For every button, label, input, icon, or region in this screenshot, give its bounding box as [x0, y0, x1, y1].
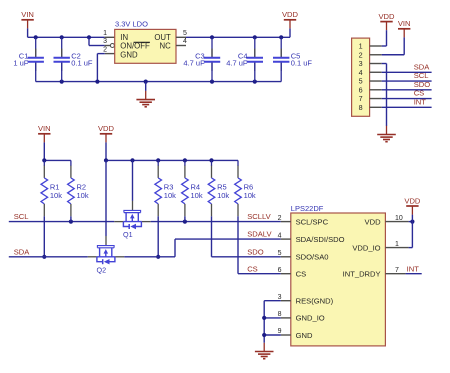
svg-text:GND_IO: GND_IO — [296, 314, 325, 323]
svg-text:SCLLV: SCLLV — [247, 212, 271, 221]
svg-text:1 uF: 1 uF — [13, 59, 28, 68]
svg-text:INT: INT — [407, 264, 420, 273]
svg-text:VDD_IO: VDD_IO — [352, 243, 380, 252]
svg-text:3: 3 — [359, 59, 363, 68]
svg-text:6: 6 — [359, 85, 363, 94]
transistor Q1 N-MOSFET — [114, 201, 150, 239]
pin stub J1-4 — [370, 71, 382, 73]
node junction GND — [262, 333, 266, 337]
node junction R2/SCL — [69, 220, 73, 224]
svg-text:NC: NC — [160, 42, 172, 51]
node junction R3/SDALV — [156, 255, 160, 259]
svg-text:7: 7 — [359, 94, 363, 103]
node junction GND_IO — [262, 316, 266, 320]
svg-text:CS: CS — [247, 264, 258, 273]
svg-text:4.7 uF: 4.7 uF — [183, 59, 205, 68]
resistor R6 10k — [235, 160, 256, 216]
svg-text:VDD: VDD — [365, 217, 382, 226]
svg-text:0.1 uF: 0.1 uF — [71, 59, 93, 68]
svg-text:3: 3 — [103, 38, 107, 45]
svg-text:Q2: Q2 — [97, 265, 107, 274]
svg-text:SDO: SDO — [247, 247, 264, 256]
svg-text:OUT: OUT — [154, 33, 171, 42]
pin stub U2 RES(GND) — [281, 300, 291, 302]
resistor R1 10k — [41, 160, 62, 216]
svg-text:VIN: VIN — [38, 124, 51, 133]
pin stub LDO pin 2 GND — [105, 53, 115, 55]
wire J1 pin1 to VDD — [382, 45, 387, 47]
svg-text:GND: GND — [296, 331, 313, 340]
wire GND pin to bottom rail — [97, 53, 104, 55]
node junction VDD rail / R5 — [209, 158, 213, 162]
wire R1 down to SDA — [43, 216, 45, 256]
wire Q1 gate drop — [132, 160, 134, 201]
ground GND2 under connector — [377, 126, 396, 142]
wire J1 pin8 net INT — [382, 106, 432, 108]
svg-text:SDALV: SDALV — [247, 230, 272, 239]
wire VDD rail — [106, 159, 238, 161]
wire Q2 gate drop — [105, 160, 107, 236]
wire RES(GND) to ground drop — [264, 300, 281, 302]
pin stub U2 CS — [281, 273, 291, 275]
svg-text:10k: 10k — [217, 191, 229, 200]
node junction LDO GND/bottom rail — [95, 80, 99, 84]
svg-text:8: 8 — [359, 103, 363, 112]
pin stub J1-2 — [370, 54, 382, 56]
resistor R2 10k — [68, 160, 89, 216]
pin stub LDO pin 5 OUT — [176, 36, 186, 38]
svg-text:INT: INT — [414, 97, 427, 106]
wire R4 to SCLLV — [184, 216, 186, 221]
node junction C3/top rail — [210, 35, 214, 39]
pin stub LDO pin 4 NC — [176, 45, 186, 47]
pin stub U2 GND — [281, 334, 291, 336]
node junction VDD rail / R4 — [183, 158, 187, 162]
svg-text:4: 4 — [359, 68, 363, 77]
svg-text:9: 9 — [278, 328, 282, 335]
node junction VDD rail / Q2 gate drop — [104, 158, 108, 162]
node junction VIN rail / R1 — [42, 158, 46, 162]
regulator U1 3.3V LDO box — [115, 29, 176, 63]
svg-text:5: 5 — [359, 77, 363, 86]
svg-text:ON/OFF: ON/OFF — [120, 42, 150, 51]
pin stub U2 SDO/SA0 — [281, 256, 291, 258]
wire R6 down to CS line — [237, 216, 239, 273]
power flag VDD (sensor supply) — [404, 196, 421, 214]
capacitor C4 4.7 uF — [226, 37, 263, 81]
wire SCL high side — [9, 221, 115, 223]
pin stub U2 VDD — [385, 221, 408, 223]
wire top rail VIN->LDO IN — [28, 36, 105, 38]
power flag VIN (input, top left) — [21, 10, 34, 28]
svg-text:7: 7 — [395, 267, 399, 274]
svg-text:2: 2 — [278, 215, 282, 222]
node junction VDD rail / Q1 gate drop — [130, 158, 134, 162]
wire SDALV (Q2 drain right) — [124, 256, 175, 258]
ground GND3 under IC — [255, 343, 274, 359]
svg-text:GND: GND — [120, 50, 138, 59]
wire SDA high side — [9, 256, 88, 258]
pin stub LDO pin 3 ON/OFF — [105, 45, 111, 47]
wire J1 pin4 net SDA — [382, 71, 432, 73]
wire J1 pin2 to VIN — [382, 54, 405, 56]
wire VIN stem to rail — [43, 142, 45, 160]
svg-text:SDA: SDA — [14, 247, 31, 256]
svg-text:1: 1 — [359, 42, 363, 51]
svg-text:SCL: SCL — [14, 212, 29, 221]
svg-text:SDO: SDO — [414, 80, 431, 89]
node junction C5/top rail — [279, 35, 283, 39]
svg-text:10k: 10k — [77, 191, 89, 200]
svg-text:CS: CS — [414, 89, 425, 98]
pin stub U2 SDA/SDI/SDO — [281, 238, 291, 240]
wire top rail OUT->VDD — [186, 36, 290, 38]
IC U2 LPS22DF box — [291, 213, 386, 346]
svg-text:INT_DRDY: INT_DRDY — [343, 270, 381, 279]
svg-text:3: 3 — [278, 294, 282, 301]
node junction VDD/VDD_IO — [410, 220, 414, 224]
svg-text:SDA: SDA — [414, 62, 431, 71]
svg-text:IN: IN — [120, 33, 128, 42]
wire bottom rail — [36, 81, 282, 83]
pin stub J1-8 — [370, 106, 382, 108]
svg-text:VIN: VIN — [21, 10, 34, 19]
transistor Q2 N-MOSFET — [88, 236, 124, 274]
wire ground stem under LDO — [145, 82, 147, 91]
node junction C1/top rail — [34, 35, 38, 39]
node junction R1/SDA — [42, 255, 46, 259]
svg-text:LPS22DF: LPS22DF — [291, 204, 324, 213]
svg-text:VIN: VIN — [398, 19, 411, 28]
svg-text:2: 2 — [359, 50, 363, 59]
wire GND_IO to drop — [264, 317, 281, 319]
svg-text:4.7 uF: 4.7 uF — [226, 59, 248, 68]
svg-text:VDD: VDD — [404, 196, 421, 205]
node junction C4/top rail — [253, 35, 257, 39]
svg-text:8: 8 — [278, 311, 282, 318]
capacitor C2 0.1 uF — [54, 37, 93, 81]
wire SDO line — [212, 256, 281, 258]
wire VDD_IO loop — [411, 222, 413, 248]
wire VIN mini rail — [44, 159, 71, 161]
wire GND to drop — [264, 334, 281, 336]
wire SCLLV (Q1 drain to IC) — [151, 221, 281, 223]
capacitor C1 1 uF — [13, 37, 44, 81]
wire J1 pin7 net CS — [382, 98, 432, 100]
pin stub U2 GND_IO — [281, 317, 291, 319]
node junction C2/bottom rail — [60, 80, 64, 84]
svg-text:5: 5 — [183, 30, 187, 37]
node junction ground stem/bottom rail — [144, 80, 148, 84]
svg-text:3.3V LDO: 3.3V LDO — [115, 20, 148, 29]
svg-text:10k: 10k — [244, 191, 256, 200]
pin stub J1-1 — [370, 45, 382, 47]
pin stub U2 SCL/SPC — [281, 221, 291, 223]
pin stub J1-6 — [370, 89, 382, 91]
resistor R4 10k — [182, 160, 203, 216]
svg-text:5: 5 — [278, 250, 282, 257]
wire J1 pin6 net SDO — [382, 89, 432, 91]
svg-text:RES(GND): RES(GND) — [296, 297, 334, 306]
wire INT_DRDY net — [406, 273, 422, 275]
power flag VIN (pull-up rail) — [38, 124, 51, 142]
pin stub LDO pin 1 IN — [105, 36, 115, 38]
svg-text:SDA/SDI/SDO: SDA/SDI/SDO — [296, 235, 345, 244]
power flag VIN (connector pin 2) — [398, 19, 411, 37]
svg-text:CS: CS — [296, 270, 307, 279]
wire CS line — [238, 273, 281, 275]
wire J1 pin5 net SCL — [382, 80, 432, 82]
capacitor C5 0.1 uF — [273, 37, 312, 81]
wire VDD flag stem — [411, 215, 413, 222]
svg-text:10: 10 — [395, 215, 403, 222]
ground GND1 under LDO — [136, 91, 155, 107]
wire ON/OFF jog — [88, 37, 90, 45]
svg-text:6: 6 — [278, 267, 282, 274]
svg-text:10k: 10k — [50, 191, 62, 200]
svg-text:0.1 uF: 0.1 uF — [291, 59, 313, 68]
wire VIN stem — [27, 28, 29, 37]
svg-text:Q1: Q1 — [123, 230, 133, 239]
node junction C2/top rail — [60, 35, 64, 39]
svg-text:SDO/SA0: SDO/SA0 — [296, 253, 329, 262]
node junction R4/SCLLV — [183, 220, 187, 224]
wire VDD stem to rail — [105, 142, 107, 160]
wire R2 to SCL — [70, 216, 72, 221]
node junction C3/bottom rail — [210, 80, 214, 84]
svg-text:10k: 10k — [164, 191, 176, 200]
wire R5 down to SDO line — [211, 216, 213, 256]
wire J1 pin3 to ground — [382, 63, 387, 65]
node junction C4/bottom rail — [253, 80, 257, 84]
svg-text:SCL: SCL — [414, 71, 429, 80]
pin stub U2 VDD_IO — [385, 247, 408, 249]
node junction VDD rail / R3 — [156, 158, 160, 162]
node junction ON/OFF jog/top rail — [87, 35, 91, 39]
svg-text:VDD: VDD — [378, 12, 395, 21]
wire VDD stem down — [289, 28, 291, 37]
resistor R5 10k — [208, 160, 229, 216]
power flag VDD (pull-up rail) — [98, 124, 115, 142]
svg-text:VDD: VDD — [98, 124, 115, 133]
svg-text:10k: 10k — [191, 191, 203, 200]
svg-text:VDD: VDD — [282, 10, 299, 19]
wire VDD pin10 to flag — [409, 221, 413, 223]
pin stub J1-3 — [370, 63, 382, 65]
svg-text:2: 2 — [103, 46, 107, 53]
power flag VDD (top, regulator output) — [282, 10, 299, 28]
resistor R3 10k — [155, 160, 176, 216]
svg-text:4: 4 — [278, 232, 282, 239]
connector J1 8-pin header box — [352, 38, 370, 116]
pin stub J1-5 — [370, 80, 382, 82]
svg-text:1: 1 — [103, 30, 107, 37]
svg-text:4: 4 — [183, 38, 187, 45]
capacitor C3 4.7 uF — [183, 37, 220, 81]
wire SDALV step up — [174, 239, 176, 257]
power flag VDD (connector pin 1) — [378, 12, 395, 30]
wire R3 down to SDALV — [157, 216, 159, 256]
pin stub U2 INT_DRDY — [385, 273, 405, 275]
svg-text:SCL/SPC: SCL/SPC — [296, 217, 329, 226]
svg-text:1: 1 — [395, 241, 399, 248]
pin stub J1-7 — [370, 98, 382, 100]
